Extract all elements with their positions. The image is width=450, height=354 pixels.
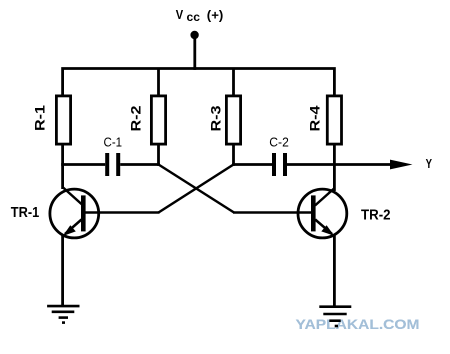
resistor R1	[56, 96, 70, 144]
resistor R2	[151, 96, 165, 144]
capacitor C2	[274, 153, 285, 176]
wire: left mid segment R1-node to C1	[61, 163, 105, 166]
wire: R2 top stub	[157, 69, 160, 95]
wire: C2 to output line	[287, 163, 393, 166]
node Vcc (terminal dot)	[190, 31, 198, 39]
wire: R3 bottom stub	[232, 144, 235, 166]
wire: Vcc tap	[193, 35, 196, 70]
wire: TR-2 base horizontal	[233, 211, 312, 214]
wire: R4 bottom vertical (collector branch TR-2)	[333, 144, 336, 191]
power rail wire (top horizontal bus)	[63, 69, 335, 95]
svg-text:R-4: R-4	[307, 105, 323, 131]
wire: TR-2 emitter to ground	[333, 235, 336, 307]
resistor R4	[327, 96, 341, 144]
svg-text:R-1: R-1	[32, 105, 48, 131]
svg-text:R-3: R-3	[208, 105, 224, 131]
output arrowhead	[390, 160, 413, 170]
wire: cross-coupling diagonal R2-node to TR-2 base	[159, 165, 235, 213]
wire: C1 to R2-node segment	[120, 163, 160, 166]
svg-text:(+): (+)	[207, 8, 224, 23]
svg-text:TR-2: TR-2	[361, 207, 391, 224]
svg-text:TR-1: TR-1	[11, 204, 39, 221]
wire: R1 bottom vertical (collector branch TR-1)	[61, 144, 64, 189]
wire: TR-1 base horizontal	[85, 211, 159, 214]
svg-text:R-2: R-2	[128, 105, 144, 131]
ground (under TR-2)	[319, 307, 351, 326]
svg-text:cc: cc	[187, 10, 201, 24]
ground (under TR-1)	[47, 306, 79, 323]
resistor R3	[226, 96, 240, 144]
transistor TR-1 (mirrored NPN)	[50, 187, 99, 238]
wire: R2 bottom stub	[157, 144, 160, 166]
svg-text:C-1: C-1	[104, 134, 123, 149]
wire: R3 top stub	[232, 69, 235, 95]
wire: TR-1 emitter to ground	[61, 235, 64, 306]
wire: right mid segment R3-node to C2	[232, 163, 272, 166]
wire: cross-coupling diagonal R3-node to TR-1 base	[159, 165, 234, 213]
label Vcc (+)	[176, 7, 224, 24]
svg-text:Y: Y	[426, 157, 433, 171]
capacitor C1	[107, 153, 118, 176]
svg-text:V: V	[176, 7, 184, 22]
transistor TR-2 (NPN)	[298, 188, 347, 238]
svg-text:C-2: C-2	[269, 134, 289, 149]
svg-text:YAPLAKAL.COM: YAPLAKAL.COM	[296, 317, 420, 332]
